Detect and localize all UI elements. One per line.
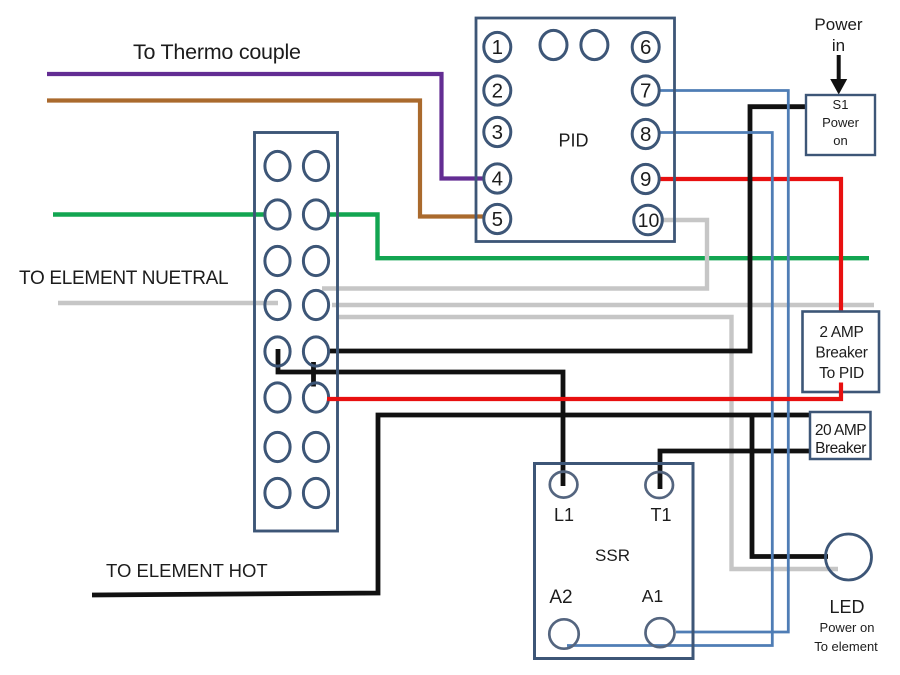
- PID pin 7: [632, 76, 659, 105]
- wire: gray neutral bus right segment: [332, 303, 874, 307]
- svg-text:2: 2: [492, 80, 503, 103]
- wire: black jumper terminal rows 5-6 right column: [311, 362, 316, 387]
- terminal block TB1: [255, 133, 338, 532]
- wire: gray TO ELEMENT NUETRAL left segment: [58, 301, 278, 305]
- svg-text:6: 6: [640, 36, 651, 59]
- svg-text:To PID: To PID: [819, 365, 864, 382]
- SSR terminal A1: [642, 586, 675, 647]
- 20 AMP breaker box: [810, 412, 871, 459]
- svg-text:To Thermo couple: To Thermo couple: [133, 40, 301, 64]
- wire: blue from PID pin 8 to SSR A2: [567, 133, 772, 646]
- PID pin 9: [632, 164, 659, 193]
- svg-text:7: 7: [640, 80, 651, 103]
- svg-text:TO ELEMENT NUETRAL: TO ELEMENT NUETRAL: [19, 268, 228, 289]
- svg-text:T1: T1: [650, 505, 671, 525]
- wire: black TO ELEMENT HOT to 20 AMP breaker: [92, 415, 810, 595]
- svg-text:in: in: [832, 36, 845, 55]
- label: To Thermo couple: [133, 40, 301, 64]
- wire: black from 20 AMP breaker to SSR T1: [660, 451, 810, 489]
- svg-text:A2: A2: [549, 587, 572, 608]
- wire: brown thermocouple lead to PID pin 5: [47, 101, 483, 217]
- svg-text:S1: S1: [833, 97, 849, 112]
- SSR terminal T1: [645, 472, 673, 525]
- PID pin 4: [484, 164, 511, 193]
- terminal row 6 contacts: [265, 383, 329, 412]
- label: TO ELEMENT HOT: [106, 560, 268, 581]
- svg-text:TO ELEMENT HOT: TO ELEMENT HOT: [106, 560, 268, 581]
- svg-text:on: on: [833, 133, 847, 148]
- terminal row 3 contacts: [265, 246, 329, 275]
- label: 20 AMP Breaker: [815, 422, 866, 457]
- PID pin 8: [632, 119, 659, 148]
- wire: green neutral from terminal block row 2 to right side: [53, 215, 869, 259]
- label: 2 AMP Breaker To PID: [815, 324, 867, 382]
- svg-text:1: 1: [492, 36, 503, 59]
- label: S1 Power on: [822, 97, 860, 148]
- arrow: power in to S1: [830, 55, 847, 95]
- wire: purple thermocouple lead to PID pin 4: [47, 74, 484, 179]
- label: TO ELEMENT NUETRAL: [19, 268, 228, 289]
- 2 AMP breaker box: [803, 312, 880, 393]
- terminal row 2 contacts: [265, 200, 329, 229]
- svg-text:5: 5: [492, 208, 503, 231]
- svg-text:L1: L1: [554, 505, 574, 525]
- PID pin 6: [632, 32, 659, 61]
- PID pin 2: [484, 76, 511, 105]
- wire: gray from terminal row 4 to PID pin 10: [322, 220, 707, 289]
- svg-text:3: 3: [492, 121, 503, 144]
- PID pin 1: [484, 32, 511, 61]
- label: LED Power on To element: [814, 597, 878, 654]
- svg-text:LED: LED: [829, 597, 864, 617]
- PID pin 5: [484, 204, 511, 233]
- SSR relay box: [535, 464, 694, 659]
- wire: black branch to LED: [752, 415, 828, 557]
- wire: blue from PID pin 7 to SSR A1: [659, 91, 788, 633]
- label: SSR: [595, 546, 630, 565]
- wire: black from terminal row 5 to switch S1: [330, 107, 806, 351]
- svg-text:Power on: Power on: [820, 620, 875, 635]
- wire: gray from terminal row 4 to LED: [337, 317, 838, 569]
- svg-text:4: 4: [492, 168, 503, 191]
- svg-text:To element: To element: [814, 639, 878, 654]
- label: PID: [558, 131, 588, 151]
- SSR terminal L1: [550, 472, 578, 525]
- svg-text:PID: PID: [558, 131, 588, 151]
- svg-text:A1: A1: [642, 586, 663, 606]
- wire: black jumper terminal row 5 to SSR L1: [278, 349, 563, 486]
- terminal row 7 contacts: [265, 432, 329, 461]
- PID pin 10: [634, 205, 663, 235]
- SSR terminal A2: [549, 587, 578, 649]
- svg-text:20 AMP: 20 AMP: [815, 422, 866, 439]
- terminal row 1 contacts: [265, 151, 329, 180]
- svg-text:Breaker: Breaker: [815, 440, 866, 457]
- svg-text:SSR: SSR: [595, 546, 630, 565]
- wire: red from PID pin 9 to 2 AMP breaker: [659, 179, 841, 314]
- PID pin 3: [484, 117, 511, 146]
- svg-text:9: 9: [640, 168, 651, 191]
- svg-text:2 AMP: 2 AMP: [819, 324, 863, 341]
- PID top unnumbered pin B: [581, 30, 608, 59]
- LED indicator: [826, 534, 872, 580]
- PID top unnumbered pin A: [540, 30, 567, 59]
- terminal row 5 contacts: [265, 337, 329, 366]
- svg-text:Breaker: Breaker: [815, 345, 867, 362]
- svg-text:Power: Power: [822, 115, 860, 130]
- svg-text:8: 8: [640, 123, 651, 146]
- terminal row 8 contacts: [265, 478, 329, 507]
- svg-text:10: 10: [638, 210, 660, 232]
- terminal row 4 contacts: [265, 290, 329, 319]
- PID controller U1 box: [476, 18, 675, 242]
- label: Power in: [814, 15, 863, 55]
- wire: red from 2 AMP breaker to terminal row 6: [327, 383, 841, 400]
- switch S1 box: [806, 95, 875, 155]
- svg-text:Power: Power: [814, 15, 863, 34]
